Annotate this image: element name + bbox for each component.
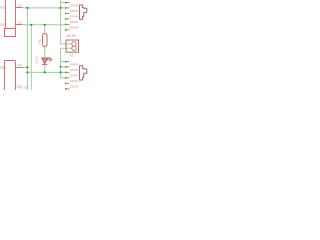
- svg-text:LED3: LED3: [34, 56, 38, 64]
- wire stub bottom connector pin 4: [61, 77, 66, 79]
- bottom-right jack symbol (bracket): [80, 66, 87, 80]
- wire LED to y=72.4: [44, 64, 46, 72]
- junction at y72.4 / bus x60.6: [60, 71, 62, 73]
- svg-text:ED2R: ED2R: [70, 85, 79, 89]
- junction at wire A / branch x27.4: [26, 7, 28, 9]
- junction at wire B / branch x31.3: [30, 24, 32, 26]
- top connector pin labels: [70, 4, 79, 30]
- wire net A (horizontal y=8): [23, 7, 66, 9]
- svg-text:ED6R: ED6R: [70, 4, 79, 8]
- wire green stub from J2 pin to branch: [23, 66, 27, 68]
- svg-text:2S1: 2S1: [17, 4, 23, 8]
- wire stub bottom connector pin 2: [61, 66, 66, 68]
- wire net B (horizontal y=24.8): [23, 24, 66, 26]
- svg-text:ED2R: ED2R: [70, 26, 79, 30]
- svg-text:ED5R: ED5R: [70, 9, 79, 13]
- svg-text:X2: X2: [70, 54, 74, 58]
- svg-text:ED3R: ED3R: [70, 79, 79, 83]
- svg-text:FB1: FB1: [0, 66, 6, 70]
- junction at wire B / resistor branch: [44, 24, 46, 26]
- svg-text:ED5R: ED5R: [70, 68, 79, 72]
- junction at y72.4 / LED branch: [44, 71, 46, 73]
- pin S2 of J1: [15, 24, 22, 26]
- wire horizontal y=72.4 (LED cathode net): [27, 71, 65, 73]
- bottom connector pin labels: [70, 63, 79, 89]
- unconnected pin end squares (bottom connector): [65, 61, 67, 90]
- connector J2 (bottom-left box component, cut off at image bottom): [4, 61, 15, 91]
- junction at J2 pin / branch x27.4: [26, 66, 28, 68]
- svg-text:2S2: 2S2: [17, 21, 23, 25]
- coil circle 2: [72, 46, 76, 50]
- svg-text:ED3R: ED3R: [70, 20, 79, 24]
- svg-text:R5: R5: [38, 39, 42, 43]
- top-right jack symbol (bracket): [80, 5, 87, 19]
- junction at bottom stub pin2: [60, 66, 62, 68]
- wire stub bottom connector pin 1: [61, 61, 66, 63]
- LED LED3: [42, 57, 52, 64]
- pin S1 of J1: [15, 7, 22, 9]
- svg-text:1B 2B: 1B 2B: [20, 86, 28, 90]
- svg-text:FS1: FS1: [0, 6, 6, 10]
- wire from K2 pin 2 down to bottom connector: [61, 48, 72, 78]
- resistor R5: [43, 34, 47, 47]
- bottom-right connector X2 pins: [66, 62, 70, 89]
- svg-text:2S1: 2S1: [17, 63, 23, 67]
- unconnected pin end squares (top connector): [65, 2, 67, 31]
- svg-text:ED4R: ED4R: [70, 74, 79, 78]
- junction at y72.4 / branch x27.4: [26, 71, 28, 73]
- wire resistor to LED: [44, 46, 46, 58]
- junction at wire A / bus x60.6: [60, 7, 62, 9]
- pin B1 of J2: [15, 67, 23, 69]
- svg-text:FS2: FS2: [0, 23, 6, 27]
- svg-text:ED4R: ED4R: [70, 15, 79, 19]
- wire stub top connector pin 1: [61, 2, 66, 4]
- wire vertical branch at x=31.3 (net B down off bottom): [30, 25, 32, 90]
- wire resistor branch top: [44, 25, 46, 34]
- svg-text:ED6R: ED6R: [70, 63, 79, 67]
- wire vertical branch at x=27.4 (net A down to J2 and off bottom): [26, 8, 28, 90]
- wire vertical bus at x=60.6 to K2 pin 1: [61, 0, 72, 44]
- relay K2 (small box with coil circles): [66, 40, 79, 52]
- connector J1 (top-left box component, cut off at image top/left): [5, 0, 16, 37]
- coil circle 1: [72, 42, 76, 46]
- svg-text:J45 BX: J45 BX: [66, 34, 77, 38]
- top-right connector X1 pins: [66, 3, 70, 30]
